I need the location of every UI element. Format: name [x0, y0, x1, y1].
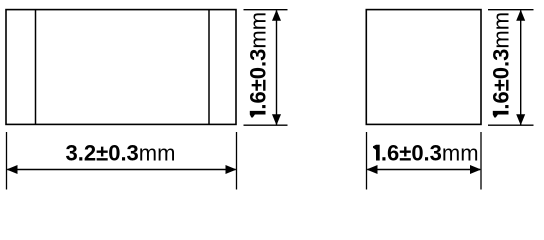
side width dimension line	[367, 169, 480, 171]
height label left (rotated)	[246, 12, 271, 118]
right extension line (width dim)	[236, 132, 238, 190]
left terminal line	[35, 10, 37, 125]
arrow up left height	[272, 10, 281, 21]
arrow left width	[7, 165, 18, 174]
svg-text:.6±0.3mm: .6±0.3mm	[246, 12, 271, 110]
top extension line (left height dim)	[244, 9, 288, 11]
chip body top view	[6, 10, 236, 125]
right terminal line	[208, 10, 210, 125]
side width label 1.6mm	[373, 145, 380, 161]
left extension line (width dim)	[6, 132, 8, 190]
top extension line (right height dim)	[488, 9, 534, 11]
bottom extension line (right height dim)	[488, 124, 534, 126]
arrow right width	[226, 165, 237, 174]
svg-text:.6±0.3mm: .6±0.3mm	[381, 141, 479, 166]
arrow down left height	[272, 114, 281, 125]
svg-text:3.2±0.3mm: 3.2±0.3mm	[66, 141, 176, 166]
width dimension line	[7, 169, 235, 171]
height dimension line left	[276, 11, 278, 125]
right extension line (side width dim)	[480, 132, 482, 190]
arrow down right height	[516, 114, 525, 125]
arrow left side width	[367, 165, 378, 174]
arrow up right height	[516, 10, 525, 21]
height dimension line right	[520, 11, 522, 125]
chip body side view (square)	[366, 10, 481, 125]
bottom extension line (left height dim)	[244, 124, 288, 126]
left extension line (side width dim)	[366, 132, 368, 190]
height label right (rotated)	[489, 12, 514, 118]
arrow right side width	[470, 165, 481, 174]
svg-text:.6±0.3mm: .6±0.3mm	[489, 12, 514, 110]
